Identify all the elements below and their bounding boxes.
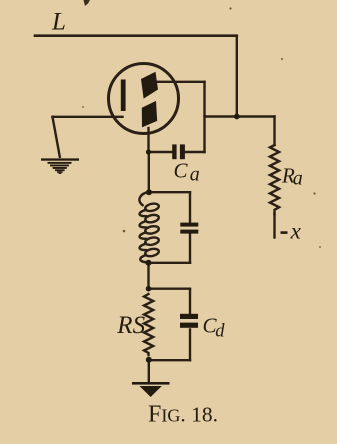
wire tank bottom: [149, 262, 191, 264]
wire feedback vertical: [203, 82, 205, 152]
terminal dash of -x: [281, 231, 288, 234]
svg-text:a: a: [190, 163, 200, 185]
wire tank right lower: [189, 234, 191, 263]
node Ca junction: [146, 149, 151, 154]
ground left (hatched): [41, 158, 79, 160]
svg-text:a: a: [293, 167, 303, 189]
svg-text:FIG. 18.: FIG. 18.: [148, 402, 218, 428]
node RS bottom: [146, 357, 152, 363]
wire Cd right upper: [189, 289, 191, 314]
tube plate upper: [141, 72, 158, 99]
tube plate lower: [142, 101, 157, 128]
wire Ca branch left part: [149, 151, 173, 153]
wire Ca node to tank top: [148, 152, 150, 192]
capacitor Cd plates: [180, 314, 198, 319]
wire left ground drop: [53, 117, 60, 157]
node plate-bus junction: [234, 114, 240, 120]
wire RS bottom: [149, 359, 191, 361]
svg-text:RS: RS: [116, 312, 145, 339]
wire plate horizontal to Ra branch: [205, 115, 275, 117]
svg-text:L: L: [51, 8, 66, 35]
wire Ra to -x terminal: [273, 214, 275, 238]
svg-text:x: x: [290, 218, 302, 243]
node RS top: [146, 286, 152, 292]
svg-text:C: C: [174, 159, 189, 183]
node tank bottom: [146, 260, 152, 266]
wire Ca branch right part: [185, 151, 205, 153]
wire cathode down to Ca node: [147, 128, 149, 152]
wire right drop from L bus: [236, 36, 238, 117]
resistor RS: [144, 294, 153, 355]
wire RS top: [149, 288, 191, 290]
wire top L bus: [35, 34, 237, 37]
wire tank to RS section: [147, 263, 149, 289]
wire RS node to ground: [148, 360, 150, 382]
wire tank right upper: [189, 192, 191, 222]
paper specks: [82, 0, 321, 248]
tube envelope U1: [109, 64, 179, 134]
capacitor Ca plates: [172, 144, 176, 159]
capacitor C1 tank plates: [180, 223, 198, 227]
ground bottom: [132, 382, 170, 385]
wire tank top: [149, 191, 190, 193]
wire down to Ra: [273, 117, 275, 146]
wire Cd right lower: [189, 330, 191, 361]
inductor L1 loops: [145, 202, 160, 257]
resistor Ra: [270, 145, 279, 214]
tube grid bar: [121, 80, 126, 112]
wire plate lead right: [157, 81, 205, 83]
node tank top: [146, 189, 152, 195]
svg-text:d: d: [215, 322, 225, 342]
inductor L1 left arcs: [139, 192, 149, 205]
wire grid lead left: [53, 116, 123, 118]
